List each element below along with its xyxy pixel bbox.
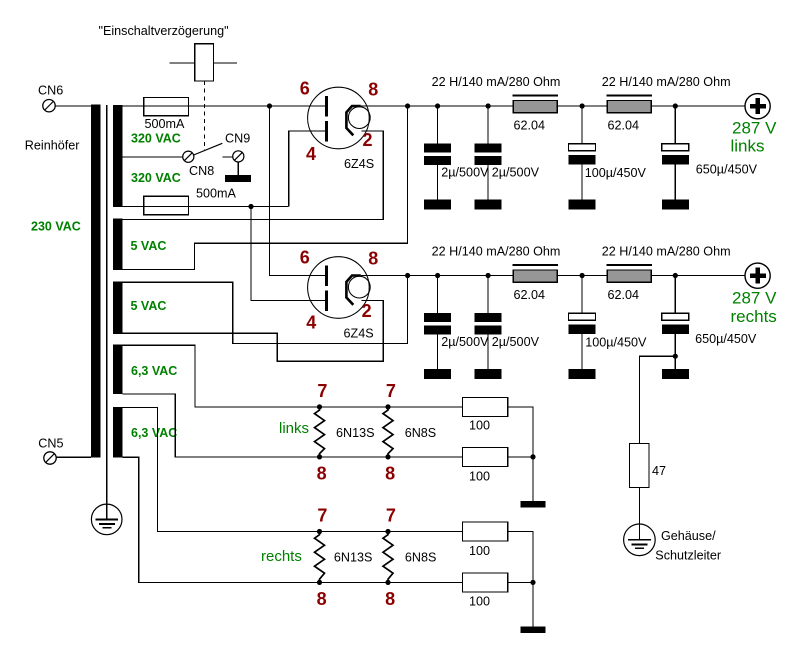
svg-text:320 VAC: 320 VAC [131, 171, 181, 185]
capacitor 2µ/500V #2 links [487, 106, 489, 143]
output terminal 287 V links [745, 94, 770, 119]
heater 6N8S rechts [383, 532, 393, 583]
relay lead left [169, 62, 194, 64]
svg-text:650µ/450V: 650µ/450V [696, 163, 758, 177]
capacitor 650µ/450V links [674, 106, 676, 144]
wire HV bottom winding through fuse F2 [122, 206, 288, 208]
junction node 2µ cap #2 links [486, 103, 491, 108]
svg-text:22 H/140 mA/280 Ohm: 22 H/140 mA/280 Ohm [432, 245, 561, 259]
svg-text:4: 4 [306, 312, 316, 332]
capacitor 2µ/500V #2 rechts [487, 276, 489, 313]
svg-text:6Z4S: 6Z4S [344, 326, 374, 340]
junction node heater 6N13S rechts pin 8 [317, 580, 322, 585]
svg-text:6: 6 [300, 247, 310, 267]
V1 anode plates [325, 96, 328, 117]
ground bar of 2µ cap #1 rechts [424, 369, 451, 379]
svg-text:320 VAC: 320 VAC [131, 131, 181, 145]
fuse F2 500mA [144, 196, 189, 214]
svg-text:62.04: 62.04 [514, 288, 546, 302]
svg-text:62.04: 62.04 [608, 119, 640, 133]
heater 6N13S links [315, 407, 325, 457]
junction node HV top / V2 plate feed [267, 103, 272, 108]
junction node 100µ cap links [580, 103, 585, 108]
capacitor 650µ/450V rechts [674, 276, 676, 314]
svg-text:7: 7 [317, 381, 327, 401]
V1 cathode circle [348, 107, 370, 129]
wire B+ rail rechts [361, 275, 745, 277]
junction node 650µ rechts negative [673, 354, 678, 359]
svg-text:8: 8 [317, 463, 327, 483]
capacitor 2µ/500V #1 rechts [437, 276, 439, 313]
V2 cathode circle [348, 276, 370, 298]
svg-text:22 H/140 mA/280 Ohm: 22 H/140 mA/280 Ohm [602, 245, 731, 259]
svg-text:"Einschaltverzögerung": "Einschaltverzögerung" [99, 24, 229, 38]
transformer T1 secondary winding 5 VAC #2 [113, 282, 122, 335]
svg-text:6,3 VAC: 6,3 VAC [131, 364, 177, 378]
fuse F1 500mA [144, 98, 189, 116]
choke L 22H/140mA/280 Ohm #1 rechts [512, 264, 558, 266]
transformer T1 secondary winding 6,3 VAC #2 [113, 407, 122, 458]
svg-text:4: 4 [306, 144, 316, 164]
svg-text:Reinhöfer: Reinhöfer [25, 139, 80, 153]
capacitor 2µ/500V #1 links [437, 106, 439, 143]
choke L 22H/140mA/280 Ohm #1 links [512, 94, 558, 96]
ground bar of 2µ cap #1 links [424, 199, 451, 209]
junction node heater 6N8S links pin 8 [385, 454, 390, 459]
wire 6,3VAC to heater line links bottom [122, 394, 462, 457]
svg-text:CN8: CN8 [189, 164, 214, 178]
wire 6,3VAC to heater line rechts bottom [122, 457, 462, 582]
junction node cathode link rechts [405, 273, 410, 278]
ground bar of 100µ cap rechts [569, 369, 596, 379]
svg-text:62.04: 62.04 [514, 119, 546, 133]
capacitor 100µ/450V links [581, 106, 583, 144]
svg-text:6Z4S: 6Z4S [344, 157, 374, 171]
svg-text:CN6: CN6 [38, 84, 63, 98]
wire CN9 to termination bar [237, 162, 239, 175]
svg-text:6N13S: 6N13S [334, 551, 373, 565]
wire 650µ links negative to ground bar [674, 165, 676, 200]
wire V1 pin 2 to 5 VAC #1 top [122, 131, 383, 220]
relay actuator dashed link [203, 81, 205, 150]
ground bar heater links [520, 501, 545, 508]
choke L 22H/140mA/280 Ohm #2 rechts [607, 264, 653, 266]
svg-text:5 VAC: 5 VAC [131, 299, 167, 313]
svg-text:8: 8 [317, 589, 327, 609]
wire HV center tap to switch CN8 [122, 156, 182, 158]
junction node 2µ cap #2 rechts [486, 273, 491, 278]
junction node 2µ cap #1 links [435, 103, 440, 108]
V2 cathode [346, 276, 360, 305]
ground (earth) symbol at transformer core [91, 504, 122, 535]
wire CN6 to primary [55, 105, 91, 107]
svg-text:6: 6 [300, 79, 310, 99]
switch contact CN9 [233, 151, 244, 162]
wire 5 VAC #1 bottom to V1 cathode node [122, 106, 407, 270]
svg-text:6N13S: 6N13S [336, 426, 375, 440]
junction node heater 6N13S links pin 8 [317, 454, 322, 459]
junction node 100µ cap rechts [580, 273, 585, 278]
wire 6,3VAC to heater line links top [122, 345, 462, 407]
svg-text:500mA: 500mA [196, 187, 237, 201]
junction node HV bottom / V2 plate feed [248, 204, 253, 209]
wire V2 pin 2 to 5 VAC #2 bottom [122, 301, 383, 362]
svg-text:22 H/140 mA/280 Ohm: 22 H/140 mA/280 Ohm [602, 75, 731, 89]
resistor 47 [629, 444, 649, 488]
wire CN5 to primary [56, 456, 91, 458]
svg-text:8: 8 [385, 589, 395, 609]
rectifier tube V1 6Z4S envelope [308, 87, 370, 149]
svg-text:CN5: CN5 [38, 436, 63, 450]
wire resistor #1 links to balance node [508, 407, 533, 501]
junction node heater 6N8S rechts pin 7 [385, 529, 390, 534]
svg-text:2µ/500V: 2µ/500V [441, 335, 489, 349]
junction node 650µ cap links [673, 103, 678, 108]
terminal CN5 [44, 452, 56, 464]
CN9 termination bar [225, 175, 251, 182]
ground bar of 650µ cap links [662, 199, 689, 209]
junction node balance links [530, 454, 535, 459]
transformer T1 core line [106, 105, 108, 519]
svg-text:100: 100 [469, 469, 490, 483]
resistor 100 #2 rechts [463, 573, 508, 592]
V2 anode plates [325, 266, 328, 287]
svg-text:100µ/450V: 100µ/450V [585, 166, 647, 180]
svg-text:rechts: rechts [261, 548, 302, 565]
switch contact CN8 [183, 151, 194, 162]
V1 cathode [346, 106, 360, 135]
junction node 2µ cap #1 rechts [435, 273, 440, 278]
junction node heater 6N13S links pin 7 [317, 404, 322, 409]
chassis ground symbol (Gehäuse/Schutzleiter) [624, 524, 656, 556]
svg-text:5 VAC: 5 VAC [131, 239, 167, 253]
wire CN9 stub [222, 156, 232, 158]
ground bar of 2µ cap #2 rechts [475, 369, 502, 379]
heater 6N13S rechts [315, 532, 325, 583]
transformer T1 secondary winding 5 VAC #1 [113, 219, 122, 270]
svg-text:230 VAC: 230 VAC [31, 220, 81, 234]
svg-text:287 V: 287 V [732, 289, 777, 308]
wire 650µ rechts negative to resistor 47 [639, 356, 675, 443]
svg-text:100: 100 [469, 595, 490, 609]
resistor 100 #2 links [463, 447, 508, 466]
transformer T1 primary winding (230 VAC) [91, 104, 101, 457]
resistor 100 #1 rechts [463, 522, 508, 541]
svg-text:8: 8 [368, 249, 378, 269]
junction node balance rechts [530, 580, 535, 585]
svg-text:6,3 VAC: 6,3 VAC [131, 426, 177, 440]
svg-text:2µ/500V: 2µ/500V [492, 335, 540, 349]
transformer T1 secondary winding 320/320 VAC [113, 105, 122, 207]
svg-text:62.04: 62.04 [608, 288, 640, 302]
wire 5 VAC #2 top to V2 cathode node [122, 276, 407, 344]
svg-text:650µ/450V: 650µ/450V [695, 332, 757, 346]
svg-text:100µ/450V: 100µ/450V [585, 336, 647, 350]
terminal CN6 [43, 100, 55, 112]
svg-text:2µ/500V: 2µ/500V [492, 165, 540, 179]
heater 6N8S links [383, 407, 393, 457]
resistor 100 #1 links [463, 397, 508, 416]
wire HV top winding through fuse F1 to V1 pin 6 [122, 105, 325, 107]
svg-text:6N8S: 6N8S [405, 426, 437, 440]
svg-text:287 V: 287 V [732, 118, 777, 137]
svg-text:47: 47 [652, 464, 666, 478]
wire V2 upper plate feed (pin 6) [270, 106, 326, 276]
transformer T1 secondary winding 6,3 VAC #1 [113, 344, 122, 394]
svg-text:Gehäuse/: Gehäuse/ [661, 529, 716, 543]
wire B+ rail links [361, 105, 745, 107]
output terminal 287 V rechts [745, 263, 770, 288]
switch lever CN8 to CN9 [194, 143, 223, 155]
junction node heater 6N8S links pin 7 [385, 404, 390, 409]
wire resistor #1 rechts to balance node [508, 532, 533, 627]
wire resistor #2 rechts to balance node [508, 581, 533, 583]
svg-text:CN9: CN9 [225, 132, 250, 146]
ground bar heater rechts [520, 626, 545, 633]
junction node heater 6N8S rechts pin 8 [385, 580, 390, 585]
junction node cathode link links [405, 103, 410, 108]
junction node heater 6N13S rechts pin 7 [317, 529, 322, 534]
wire resistor #2 links to balance node [508, 456, 533, 458]
relay coil Einschaltverzoegerung [195, 44, 214, 81]
wire 650µ rechts negative to ground bar [674, 334, 676, 369]
relay lead right [213, 62, 237, 64]
svg-text:7: 7 [386, 506, 396, 526]
svg-text:links: links [279, 420, 309, 437]
svg-text:8: 8 [385, 463, 395, 483]
svg-text:100: 100 [469, 419, 490, 433]
wire resistor 47 to chassis ground [638, 487, 640, 539]
choke L 22H/140mA/280 Ohm #2 links [607, 94, 653, 96]
svg-text:rechts: rechts [731, 307, 777, 326]
svg-text:2: 2 [362, 301, 372, 321]
svg-text:7: 7 [386, 381, 396, 401]
svg-text:2µ/500V: 2µ/500V [441, 165, 489, 179]
svg-text:Schutzleiter: Schutzleiter [655, 549, 721, 563]
ground bar of 2µ cap #2 links [475, 199, 502, 209]
svg-text:22 H/140 mA/280 Ohm: 22 H/140 mA/280 Ohm [432, 75, 561, 89]
ground bar of 650µ cap rechts [662, 369, 689, 379]
capacitor 100µ/450V rechts [581, 276, 583, 314]
ground bar of 100µ cap links [569, 199, 596, 209]
svg-text:8: 8 [368, 80, 378, 100]
svg-text:100: 100 [469, 544, 490, 558]
svg-text:links: links [731, 137, 765, 156]
rectifier tube V2 6Z4S envelope [308, 257, 370, 319]
junction node 650µ cap rechts [673, 273, 678, 278]
svg-text:2: 2 [362, 130, 372, 150]
wire V2 lower plate feed (pin 4) [251, 207, 326, 301]
svg-text:500mA: 500mA [145, 117, 186, 131]
wire 6,3VAC to heater line rechts top [122, 408, 462, 532]
svg-text:7: 7 [317, 506, 327, 526]
wire V1 lower plate feed (pin 4) [289, 131, 326, 207]
svg-text:6N8S: 6N8S [405, 551, 437, 565]
